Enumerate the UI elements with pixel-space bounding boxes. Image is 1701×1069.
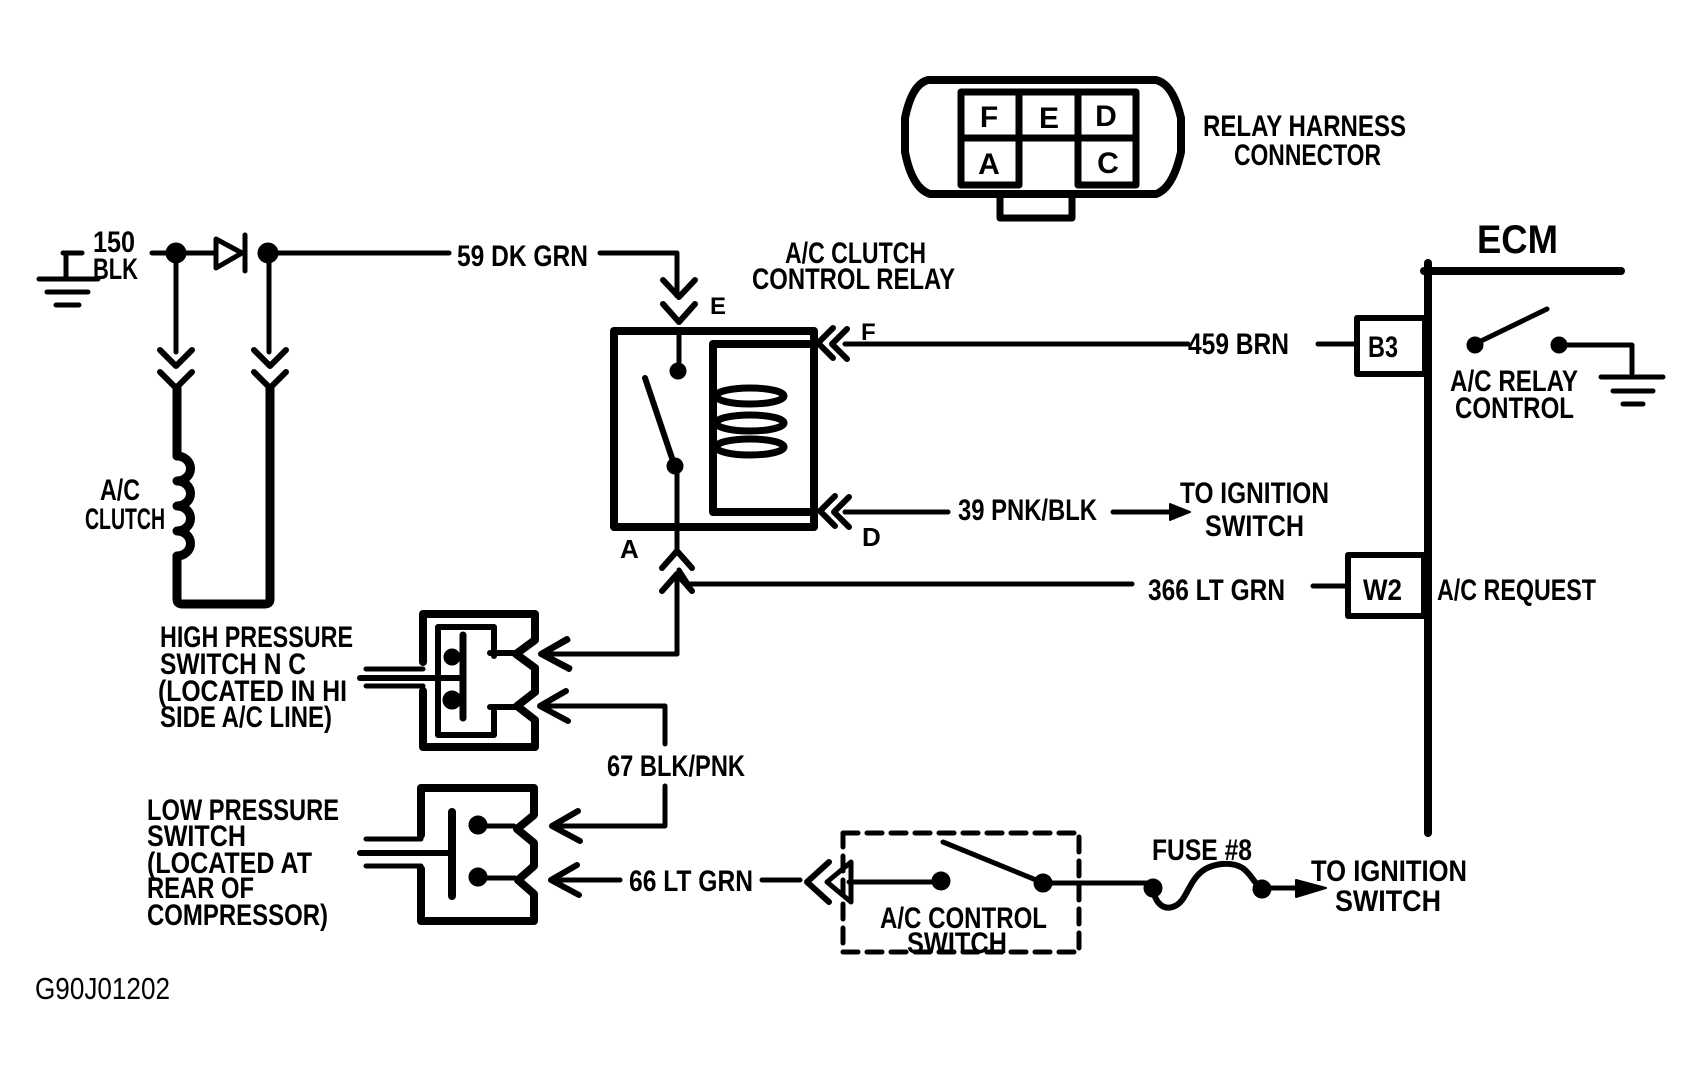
- svg-text:C: C: [1097, 147, 1119, 180]
- svg-text:G90J01202: G90J01202: [35, 971, 170, 1006]
- svg-text:459 BRN: 459 BRN: [1188, 328, 1289, 361]
- svg-text:BLK: BLK: [93, 253, 138, 286]
- svg-text:FUSE #8: FUSE #8: [1152, 834, 1252, 867]
- svg-text:SIDE A/C LINE): SIDE A/C LINE): [160, 701, 332, 734]
- svg-text:TO IGNITION: TO IGNITION: [1311, 855, 1467, 888]
- svg-text:A: A: [978, 148, 1000, 181]
- svg-text:B3: B3: [1368, 331, 1398, 364]
- svg-text:366 LT GRN: 366 LT GRN: [1148, 574, 1285, 607]
- svg-text:59 DK GRN: 59 DK GRN: [457, 240, 588, 273]
- svg-text:66 LT GRN: 66 LT GRN: [629, 865, 753, 898]
- svg-text:TO IGNITION: TO IGNITION: [1180, 477, 1329, 510]
- svg-text:SWITCH: SWITCH: [1335, 885, 1441, 918]
- svg-text:CONTROL: CONTROL: [1455, 392, 1574, 425]
- svg-text:SWITCH: SWITCH: [907, 927, 1007, 960]
- svg-text:W2: W2: [1363, 574, 1402, 607]
- svg-text:CONTROL RELAY: CONTROL RELAY: [752, 263, 955, 296]
- svg-text:D: D: [1095, 100, 1117, 133]
- svg-text:E: E: [710, 293, 726, 320]
- svg-text:D: D: [862, 522, 881, 552]
- svg-text:CONNECTOR: CONNECTOR: [1234, 139, 1381, 172]
- svg-text:39 PNK/BLK: 39 PNK/BLK: [958, 494, 1097, 527]
- svg-text:A: A: [620, 534, 639, 564]
- svg-text:A/C REQUEST: A/C REQUEST: [1437, 574, 1596, 607]
- svg-text:ECM: ECM: [1477, 218, 1558, 262]
- svg-text:67 BLK/PNK: 67 BLK/PNK: [607, 750, 745, 783]
- svg-text:F: F: [980, 101, 998, 134]
- svg-text:SWITCH: SWITCH: [1205, 510, 1304, 543]
- svg-text:COMPRESSOR): COMPRESSOR): [147, 899, 328, 932]
- svg-text:F: F: [861, 319, 876, 346]
- svg-text:E: E: [1039, 102, 1059, 135]
- svg-text:CLUTCH: CLUTCH: [85, 503, 165, 536]
